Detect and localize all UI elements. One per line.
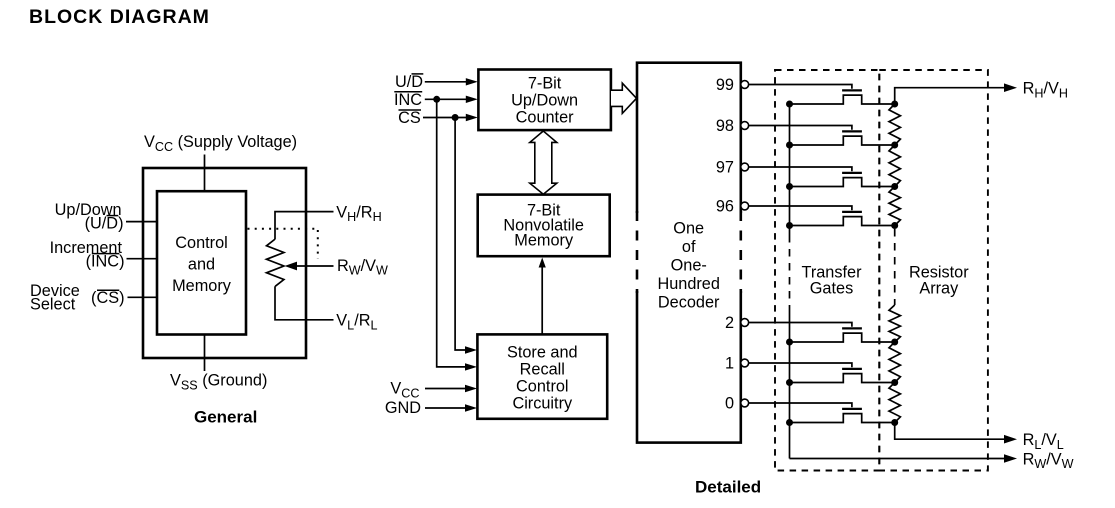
wiper bus vertical (789, 104, 791, 235)
wire gate 98 (749, 126, 852, 130)
wire U/D to counter (425, 81, 468, 83)
svg-text:1: 1 (725, 355, 734, 373)
junction tap 0 (891, 419, 898, 426)
svg-text:Select: Select (30, 296, 76, 314)
arrow store to memory (541, 263, 543, 334)
transistor Q98 channel (790, 136, 895, 145)
svg-text:Gates: Gates (810, 280, 853, 298)
svg-text:98: 98 (716, 117, 734, 135)
wire RH/VH output (895, 88, 1006, 104)
svg-text:96: 96 (716, 198, 734, 216)
transistor Q0 channel (790, 414, 895, 423)
wire CS to counter (423, 117, 468, 119)
dotted link control to wiper (248, 229, 318, 259)
svg-text:(U/D): (U/D) (85, 214, 124, 232)
transistor Q96 gate plate (842, 211, 862, 213)
svg-text:One: One (673, 220, 704, 238)
wire GND to store (425, 407, 467, 409)
transistor Q1 channel (790, 374, 895, 383)
transistor Q1 gate plate (842, 368, 862, 370)
svg-text:Up/Down: Up/Down (511, 92, 578, 110)
potentiometer resistor body (267, 239, 284, 286)
svg-text:Circuitry: Circuitry (512, 394, 573, 412)
svg-text:99: 99 (716, 76, 734, 94)
svg-text:Hundred: Hundred (657, 275, 719, 293)
junction tap 98 (891, 142, 898, 149)
one of one-hundred decoder box (637, 63, 741, 443)
svg-text:Memory: Memory (172, 277, 232, 295)
transistor Q96 channel (790, 217, 895, 226)
wire U/D input (126, 221, 157, 223)
wire pot bottom to VL/RL (275, 286, 334, 320)
wire INC to counter (425, 98, 468, 100)
wire INC input (127, 258, 158, 260)
junction tap 2 (891, 339, 898, 346)
double arrow counter/memory (530, 131, 557, 194)
svg-text:BLOCK DIAGRAM: BLOCK DIAGRAM (29, 6, 210, 28)
wire RL/VL output (895, 423, 1006, 440)
wire CS down to store/recall (455, 118, 467, 351)
transistor Q2 gate plate (842, 327, 862, 329)
junction wiper bus 1 (786, 379, 793, 386)
wire gate 96 (749, 206, 852, 210)
wire gate 99 (749, 85, 852, 89)
svg-text:CS: CS (398, 109, 421, 127)
wire gate 2 (749, 323, 852, 327)
junction wiper bus 99 (786, 101, 793, 108)
wire gate 97 (749, 167, 852, 171)
wire gate 1 (749, 363, 852, 367)
svg-text:Control: Control (516, 377, 569, 395)
junction wiper bus 0 (786, 419, 793, 426)
junction tap 1 (891, 379, 898, 386)
overline over CS (97, 289, 119, 291)
svg-text:Store and: Store and (507, 343, 578, 361)
wire pot top to VH/RH (275, 212, 334, 239)
junction CS (452, 114, 459, 121)
svg-text:INC: INC (394, 91, 422, 109)
transistor Q2 channel (790, 333, 895, 342)
wiper arrow (296, 265, 334, 267)
wire CS input (128, 296, 158, 298)
svg-text:One-: One- (671, 257, 707, 275)
decoder left edge dashed continuation (636, 211, 639, 293)
transistor Q99 channel (790, 95, 895, 104)
decoder right edge dashed continuation (739, 211, 742, 293)
svg-text:Counter: Counter (516, 109, 575, 127)
transistor Q0 gate plate (842, 408, 862, 410)
control and memory box (157, 191, 246, 334)
svg-text:and: and (188, 256, 215, 274)
svg-text:Decoder: Decoder (658, 294, 720, 312)
junction INC (433, 96, 440, 103)
svg-text:(INC): (INC) (86, 252, 125, 270)
svg-text:of: of (682, 238, 696, 256)
svg-text:General: General (194, 408, 257, 427)
wire RW/VW output (790, 458, 1007, 460)
junction wiper bus 97 (786, 183, 793, 190)
7-bit nonvolatile memory box (478, 195, 610, 257)
svg-text:7-Bit: 7-Bit (528, 75, 562, 93)
junction wiper bus 98 (786, 142, 793, 149)
wire Vcc to store (425, 388, 467, 390)
svg-text:Array: Array (919, 280, 959, 298)
junction tap 99 (891, 101, 898, 108)
svg-text:(CS): (CS) (91, 289, 124, 307)
svg-text:U/D: U/D (395, 73, 423, 91)
svg-text:2: 2 (725, 314, 734, 332)
svg-text:Memory: Memory (514, 232, 574, 250)
outer device box (General) (143, 168, 306, 358)
wire Vcc stub (204, 155, 206, 193)
junction wiper bus 2 (786, 339, 793, 346)
svg-text:Detailed: Detailed (695, 478, 761, 497)
transistor Q98 gate plate (842, 130, 862, 132)
transistor Q97 gate plate (842, 172, 862, 174)
svg-text:GND: GND (385, 399, 421, 417)
junction wiper bus 96 (786, 222, 793, 229)
wire gate 0 (749, 403, 852, 407)
junction tap 97 (891, 183, 898, 190)
transistor Q97 channel (790, 178, 895, 187)
store and recall control circuitry box (477, 334, 607, 418)
double arrow counter to decoder (611, 83, 637, 113)
svg-text:Control: Control (175, 234, 228, 252)
resistor array chain (889, 104, 900, 145)
chain dashed continuation (894, 229, 896, 305)
svg-text:0: 0 (725, 395, 734, 413)
svg-text:Recall: Recall (520, 360, 565, 378)
7-bit up/down counter box (478, 70, 611, 131)
junction tap 96 (891, 222, 898, 229)
svg-text:97: 97 (716, 159, 734, 177)
wire INC down to store/recall (437, 99, 467, 367)
overline over INC (92, 253, 120, 255)
overline over D of (U/D) (107, 215, 119, 217)
resistor array dashed box (879, 70, 988, 471)
transfer gates dashed box (775, 70, 879, 471)
transistor Q99 gate plate (842, 89, 862, 91)
wire Vss stub (204, 334, 206, 371)
